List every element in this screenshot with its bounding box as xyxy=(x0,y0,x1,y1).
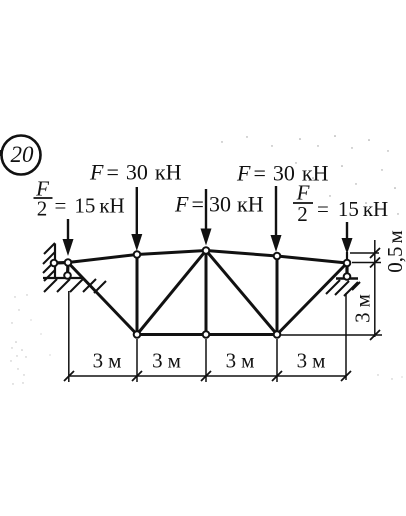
problem number circle 20 xyxy=(0,136,41,175)
right support ground bar xyxy=(336,277,358,280)
svg-text:2: 2 xyxy=(297,202,308,226)
extension line apex level xyxy=(350,252,379,254)
node B1 xyxy=(134,331,141,338)
force arrow F at node L1 xyxy=(131,187,142,251)
svg-text:3м: 3м xyxy=(297,349,326,373)
tick mid xyxy=(370,258,380,268)
node B3 xyxy=(274,331,281,338)
dimension extension line B2 xyxy=(205,339,207,382)
tick 2 xyxy=(132,371,142,381)
wire diagonal L0-B1 xyxy=(68,263,137,335)
dimension extension line B3 xyxy=(276,339,278,382)
svg-text:3м: 3м xyxy=(152,349,181,373)
tick top xyxy=(370,248,380,258)
wire top chord L1-L2 xyxy=(137,251,206,255)
left support ground edge xyxy=(43,277,82,279)
force arrow F/2 right at node L4 xyxy=(342,222,353,260)
svg-text:20: 20 xyxy=(11,142,35,167)
svg-text:3м: 3м xyxy=(351,294,375,323)
left support wall edge xyxy=(54,244,56,279)
extension line support level xyxy=(352,262,381,264)
tick bottom xyxy=(370,330,380,340)
node L0 xyxy=(65,259,72,266)
left support ground pin xyxy=(64,272,71,279)
tick 3 xyxy=(201,371,211,381)
wire top chord L0-L1 xyxy=(68,255,137,263)
extension line bottom chord level xyxy=(281,334,382,336)
label F/2 = 15 kN right fraction xyxy=(293,181,388,227)
wire diagonal L4-B3 xyxy=(277,263,347,335)
wire vertical L2-B2 xyxy=(205,251,208,335)
right support ground hatching xyxy=(326,280,360,296)
wire diagonal L2-B1 xyxy=(137,251,206,335)
wire top chord L3-L4 xyxy=(277,256,347,263)
svg-text:F=: F= xyxy=(174,192,204,217)
left support link to ground xyxy=(66,263,70,276)
left support wall hatching xyxy=(43,243,55,281)
tick 4 xyxy=(272,371,282,381)
right support pin xyxy=(344,273,351,280)
svg-text:3м: 3м xyxy=(226,349,255,373)
right support link xyxy=(345,263,348,277)
svg-text:3м: 3м xyxy=(93,349,122,373)
bottom dimension line xyxy=(69,375,346,377)
node L3 xyxy=(274,253,281,260)
svg-text:=15кН: =15кН xyxy=(55,194,125,218)
node L1 xyxy=(134,251,141,258)
scan speckles xyxy=(221,135,398,215)
label F/2 = 15 kN left fraction xyxy=(34,177,125,221)
tick 1 xyxy=(64,371,74,381)
node B2 xyxy=(203,331,210,338)
dimension extension line right end xyxy=(345,293,347,380)
wire vertical L3-B3 xyxy=(276,256,279,335)
tick 5 xyxy=(341,371,351,381)
left support link to wall xyxy=(54,261,68,265)
left support wall pin xyxy=(51,260,58,267)
svg-text:30кН: 30кН xyxy=(209,192,264,217)
svg-text:=15кН: =15кН xyxy=(317,197,388,221)
force arrow F at node L3 xyxy=(271,186,282,252)
dimension extension line B1 xyxy=(136,339,138,382)
scan speckles bottom left xyxy=(10,294,402,384)
force arrow F/2 left at node L0 xyxy=(63,219,74,256)
wire bottom chord B1-B2 xyxy=(137,333,206,336)
svg-text:2: 2 xyxy=(37,197,48,221)
wire diagonal L2-B3 xyxy=(206,251,277,335)
node L2 xyxy=(203,247,210,254)
svg-text:F=30кН: F=30кН xyxy=(236,161,329,186)
svg-text:F=30кН: F=30кН xyxy=(89,160,182,185)
svg-text:0,5м: 0,5м xyxy=(383,230,406,273)
wire vertical L1-B1 xyxy=(136,255,139,335)
left support ground hatching xyxy=(44,279,106,293)
dimension extension line left end xyxy=(68,291,70,382)
wire top chord L2-L3 xyxy=(206,251,277,257)
right dimension vertical line xyxy=(374,240,376,337)
force arrow F at node L2 xyxy=(201,189,212,246)
wire bottom chord B2-B3 xyxy=(206,333,277,336)
svg-text:F: F xyxy=(296,181,310,205)
node L4 xyxy=(344,260,351,267)
